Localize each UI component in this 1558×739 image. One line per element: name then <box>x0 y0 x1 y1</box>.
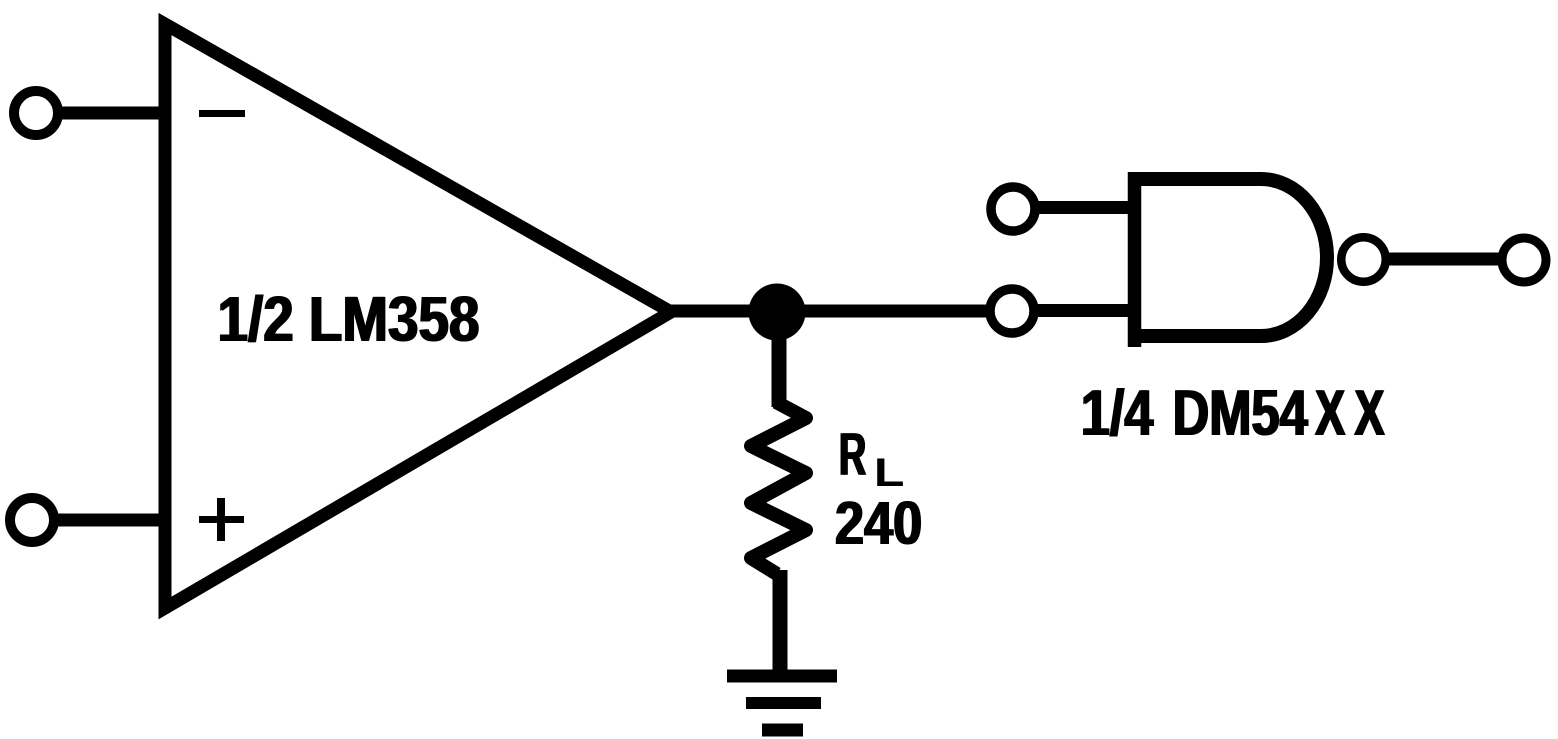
svg-text:X: X <box>1316 376 1346 449</box>
op-amp U1 triangle (1/2 LM358) <box>165 24 671 608</box>
resistor RL 240 (zigzag) <box>751 402 806 574</box>
terminal: NAND bottom input (open circle) <box>990 289 1034 333</box>
minus sign (inverting input marker) <box>199 110 245 117</box>
wire: junction down to resistor <box>772 312 787 407</box>
terminal: non-inverting input (open circle) <box>10 498 54 542</box>
node: output junction (solid dot) <box>749 284 806 341</box>
svg-text:R: R <box>840 421 867 488</box>
plus sign (non-inverting input marker) <box>199 498 244 541</box>
wire: NAND top input to gate <box>1038 201 1133 214</box>
svg-text:240: 240 <box>836 490 923 558</box>
wire: resistor to ground <box>773 570 788 670</box>
svg-text:L: L <box>874 450 905 495</box>
value label: 240 <box>834 490 923 558</box>
ground symbol <box>727 670 837 737</box>
value label: RL <box>838 421 904 495</box>
terminal: NAND top input (open circle) <box>991 187 1035 231</box>
wire: inverting input to op-amp <box>58 107 168 120</box>
NAND gate left edge bar <box>1128 172 1142 347</box>
svg-text:X: X <box>1355 376 1385 449</box>
terminal: inverting input (open circle) <box>14 91 58 135</box>
svg-text:1/4: 1/4 <box>1082 377 1155 450</box>
svg-text:DM54: DM54 <box>1174 377 1310 449</box>
wire: bubble to output terminal <box>1384 253 1500 266</box>
device label: 1/4 DM54XX <box>1080 377 1155 450</box>
value label: 1/2 LM358 <box>217 283 481 355</box>
terminal: NAND output (open circle) <box>1502 238 1546 282</box>
wire: non-inverting input to op-amp <box>54 514 168 527</box>
inverter bubble on NAND output <box>1341 237 1386 282</box>
wire: NAND bottom input circle to gate <box>1037 304 1135 317</box>
wire: op-amp output to NAND input <box>660 305 990 318</box>
svg-text:1/2 LM358: 1/2 LM358 <box>219 283 481 355</box>
NAND gate U2 (1/4 DM54XX) body <box>1135 179 1327 336</box>
